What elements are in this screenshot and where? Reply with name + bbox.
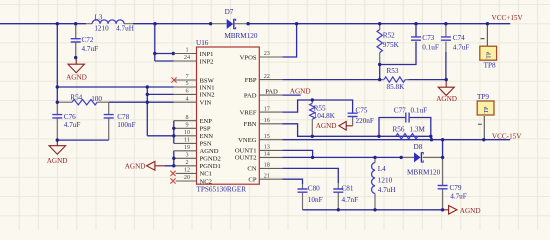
U16 right pin stubs — [259, 57, 282, 179]
svg-text:18: 18 — [264, 162, 270, 169]
svg-text:6: 6 — [185, 88, 188, 95]
svg-text:85.8K: 85.8K — [387, 83, 406, 91]
svg-text:U16: U16 — [196, 39, 209, 47]
svg-text:FBN: FBN — [244, 121, 257, 128]
svg-text:AGND: AGND — [436, 95, 457, 103]
svg-text:VCC+15V: VCC+15V — [492, 14, 524, 22]
power port VCC-15V — [492, 132, 522, 140]
wire INP riser — [155, 24, 174, 61]
svg-text:2: 2 — [185, 159, 188, 166]
svg-text:C80: C80 — [308, 184, 320, 192]
svg-text:D8: D8 — [414, 143, 423, 151]
wire INN2 branch — [147, 93, 174, 95]
svg-text:C78: C78 — [117, 113, 129, 121]
svg-text:1210: 1210 — [94, 25, 109, 33]
resistor R53 — [380, 67, 447, 91]
svg-text:VIN: VIN — [200, 100, 212, 107]
U16 left pin stubs — [174, 54, 197, 182]
svg-text:19: 19 — [184, 144, 190, 151]
capacitor C73 — [380, 24, 439, 65]
svg-text:17: 17 — [264, 105, 270, 112]
capacitor C81 — [333, 183, 358, 210]
capacitor C80 — [298, 184, 323, 210]
svg-text:104.8K: 104.8K — [314, 112, 336, 120]
ground AGND under C72 — [66, 58, 87, 82]
inductor L3 — [86, 13, 134, 32]
wire OUNT1 to OUNT2 — [282, 150, 312, 157]
wire C76-C78 bottom — [57, 139, 108, 141]
svg-text:1: 1 — [185, 47, 188, 54]
svg-text:VPOS: VPOS — [240, 54, 257, 61]
svg-text:1210: 1210 — [378, 177, 393, 185]
svg-text:4: 4 — [185, 95, 188, 102]
svg-text:L4: L4 — [378, 165, 386, 173]
svg-text:VREF: VREF — [240, 109, 257, 116]
svg-text:1.3M: 1.3M — [410, 125, 426, 133]
svg-text:L3: L3 — [94, 13, 102, 21]
svg-text:C77: C77 — [394, 107, 406, 115]
svg-text:16: 16 — [264, 117, 270, 124]
wire VPOS to +15V rail — [282, 24, 296, 57]
capacitor C78 — [104, 102, 136, 140]
wire VNEG rail (VCC-15V net) — [282, 139, 510, 141]
svg-text:14: 14 — [264, 151, 270, 158]
U16 right pin names — [235, 54, 257, 183]
resistor R55 — [310, 100, 336, 136]
node PAD net labels — [265, 88, 310, 96]
junction dots IC left — [172, 127, 175, 168]
svg-text:4.7nF: 4.7nF — [342, 196, 359, 204]
svg-text:5: 5 — [185, 80, 188, 87]
op-amp U16 body TPS65130RGER — [196, 39, 259, 194]
svg-text:TP9: TP9 — [477, 93, 489, 101]
svg-text:AGND: AGND — [290, 88, 311, 96]
resistor R52 — [377, 24, 400, 80]
ground AGND at PGND1 — [125, 161, 165, 170]
svg-text:0.1uF: 0.1uF — [411, 107, 428, 115]
svg-text:PAD: PAD — [265, 88, 278, 95]
svg-text:22: 22 — [264, 73, 270, 80]
svg-text:20: 20 — [184, 174, 190, 181]
ground AGND under C76 — [47, 140, 68, 165]
svg-text:7: 7 — [185, 73, 188, 80]
svg-text:4.7uF: 4.7uF — [453, 43, 470, 51]
svg-text:ENN: ENN — [200, 133, 214, 140]
svg-text:NC2: NC2 — [200, 178, 212, 185]
svg-text:VCC-15V: VCC-15V — [492, 132, 522, 140]
svg-text:INP1: INP1 — [200, 51, 214, 58]
wire OUNT2 row — [282, 156, 401, 158]
svg-text:VNEG: VNEG — [238, 137, 257, 144]
svg-text:CP: CP — [248, 177, 256, 184]
svg-text:975K: 975K — [383, 41, 400, 49]
svg-text:OUNT2: OUNT2 — [235, 155, 257, 162]
wire bottom AGND rail — [303, 209, 443, 211]
svg-text:R52: R52 — [383, 31, 395, 39]
U16 left pin names — [200, 51, 221, 186]
junction dots right area — [295, 22, 489, 212]
svg-text:TP: TP — [484, 106, 490, 114]
svg-text:CN: CN — [247, 166, 256, 173]
inductor L4 — [372, 157, 396, 209]
svg-text:TP: TP — [487, 51, 493, 59]
wire top rail right (VCC+15V net) — [248, 23, 510, 25]
svg-text:21: 21 — [264, 172, 270, 179]
ground AGND at C75 — [316, 122, 353, 131]
svg-text:13: 13 — [264, 144, 270, 151]
no-connect X on BSW pin 7 — [171, 77, 176, 82]
svg-text:MBRM120: MBRM120 — [224, 32, 258, 40]
wire VIN row — [109, 101, 174, 103]
wire left input column — [56, 24, 58, 103]
ground AGND at FBP divider — [436, 80, 457, 104]
svg-text:C76: C76 — [64, 113, 76, 121]
svg-text:100: 100 — [91, 95, 102, 103]
svg-text:AGND: AGND — [47, 157, 68, 165]
wire AGND-PGND2-PGND1 tie — [164, 151, 173, 166]
svg-text:TP8: TP8 — [484, 61, 496, 69]
svg-text:12: 12 — [184, 167, 190, 174]
no-connect X on NC1 pin 12 — [170, 171, 175, 176]
no-connect X on NC2 pin 20 — [170, 178, 175, 183]
resistor R56 — [393, 125, 426, 139]
svg-text:INP2: INP2 — [200, 58, 214, 65]
svg-text:0.1uF: 0.1uF — [422, 43, 439, 51]
svg-text:C72: C72 — [82, 36, 94, 44]
svg-text:24: 24 — [184, 54, 190, 61]
svg-text:9: 9 — [185, 122, 188, 129]
svg-text:C74: C74 — [453, 34, 465, 42]
svg-text:TPS65130RGER: TPS65130RGER — [197, 186, 247, 194]
svg-text:10: 10 — [184, 129, 190, 136]
wire VREF to R55/C75 rail — [282, 100, 352, 113]
wire FBP row — [282, 79, 381, 81]
diode D7 — [211, 8, 258, 40]
svg-text:10nF: 10nF — [308, 196, 323, 204]
wire CP to C80 — [282, 179, 302, 184]
svg-text:11: 11 — [184, 137, 190, 144]
svg-text:MBRM120: MBRM120 — [407, 168, 441, 176]
capacitor C77 — [379, 107, 431, 137]
svg-text:4.7uH: 4.7uH — [378, 186, 396, 194]
svg-text:AGND: AGND — [125, 162, 146, 170]
svg-text:C75: C75 — [356, 106, 368, 114]
wire INN1 row — [57, 86, 174, 88]
svg-text:AGND: AGND — [316, 122, 337, 130]
wire ENN row from VIN node — [147, 135, 174, 137]
svg-text:C79: C79 — [450, 184, 462, 192]
svg-text:100nF: 100nF — [117, 121, 135, 129]
test point TP9 — [477, 93, 494, 140]
wire top input rail left — [0, 23, 86, 25]
capacitor C74 — [441, 24, 469, 80]
svg-text:NC1: NC1 — [200, 171, 212, 178]
test point TP8 — [480, 24, 497, 70]
svg-text:8: 8 — [185, 114, 188, 121]
ground AGND bottom right — [443, 206, 481, 215]
wire VIN node vertical — [146, 87, 148, 136]
capacitor C75 — [348, 106, 374, 126]
U16 right pin numbers — [264, 50, 270, 179]
svg-text:4.7uF: 4.7uF — [64, 121, 81, 129]
svg-text:AGND: AGND — [200, 148, 219, 155]
wire ENP-PSP-ENN-PSN tie — [173, 121, 175, 144]
svg-text:PGND1: PGND1 — [200, 163, 221, 170]
svg-text:4.7uF: 4.7uF — [82, 45, 99, 53]
svg-text:PSN: PSN — [200, 141, 212, 148]
svg-text:C73: C73 — [422, 34, 434, 42]
svg-text:PGND2: PGND2 — [200, 156, 221, 163]
svg-text:C81: C81 — [342, 184, 354, 192]
resistor R54 — [57, 93, 108, 105]
diode D8 — [401, 143, 442, 176]
junction dots left area — [56, 22, 250, 142]
svg-text:INN1: INN1 — [200, 84, 215, 91]
svg-text:BSW: BSW — [200, 77, 215, 84]
svg-text:15: 15 — [264, 133, 270, 140]
svg-text:AGND: AGND — [66, 74, 87, 82]
svg-text:R53: R53 — [387, 67, 399, 75]
svg-text:FBP: FBP — [245, 77, 257, 84]
svg-text:3: 3 — [185, 152, 188, 159]
svg-text:PSP: PSP — [200, 126, 211, 133]
svg-text:23: 23 — [264, 50, 270, 57]
U16 left pin numbers — [184, 47, 190, 182]
svg-text:D7: D7 — [225, 8, 234, 16]
svg-text:OUNT1: OUNT1 — [235, 148, 257, 155]
wire CN to C81 — [282, 168, 338, 183]
svg-text:220nF: 220nF — [356, 117, 374, 125]
svg-text:R54: R54 — [70, 93, 82, 101]
svg-text:4.7uF: 4.7uF — [450, 192, 467, 200]
svg-text:R56: R56 — [393, 125, 405, 133]
svg-text:ENP: ENP — [200, 118, 213, 125]
capacitor C76 — [52, 102, 80, 140]
svg-text:PAD: PAD — [244, 92, 257, 99]
capacitor C72 — [71, 24, 98, 58]
power port VCC+15V — [492, 14, 524, 22]
svg-text:4.7uH: 4.7uH — [116, 25, 134, 33]
wire FBN node row — [282, 124, 431, 140]
svg-text:AGND: AGND — [460, 207, 481, 215]
svg-text:INN2: INN2 — [200, 92, 215, 99]
wire top rail middle — [133, 23, 211, 25]
capacitor C79 — [438, 140, 467, 210]
